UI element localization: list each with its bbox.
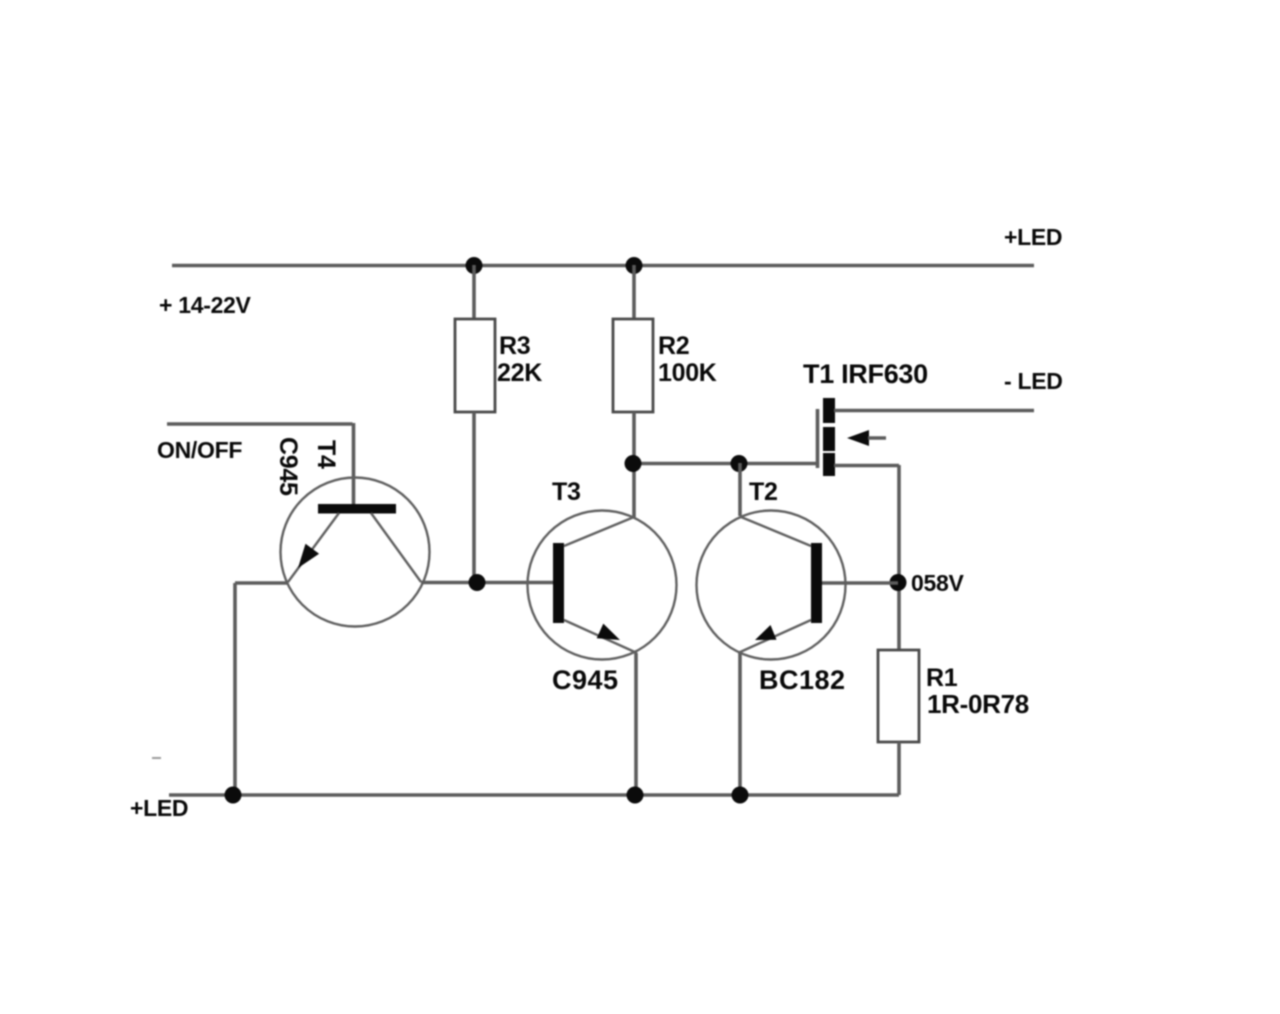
svg-text:T2: T2 — [749, 478, 778, 506]
wire gate node (R2 bottom to T1 gate) — [633, 462, 818, 466]
resistor R3 — [455, 265, 495, 582]
svg-text:+LED: +LED — [1004, 224, 1062, 250]
svg-text:BC182: BC182 — [759, 665, 846, 695]
stray mark — [152, 757, 161, 759]
svg-text:T4: T4 — [312, 440, 340, 469]
wire T1 source down to R1 — [897, 465, 901, 650]
svg-text:R3: R3 — [499, 332, 530, 360]
svg-text:R1: R1 — [926, 664, 958, 692]
transistor T4 C945 — [281, 478, 430, 627]
svg-text:058V: 058V — [911, 570, 964, 596]
transistor T3 C945 — [528, 511, 677, 660]
wire left vertical down — [233, 583, 237, 795]
resistor R1 — [878, 650, 919, 795]
node junction source/T2 base — [890, 574, 907, 591]
svg-text:- LED: - LED — [1004, 368, 1063, 394]
svg-text:+ 14-22V: + 14-22V — [159, 292, 252, 318]
node junction top rail / R2 — [626, 257, 643, 274]
svg-text:100K: 100K — [658, 359, 717, 387]
svg-text:1R-0R78: 1R-0R78 — [927, 689, 1029, 719]
transistor T2 BC182 — [697, 511, 846, 660]
svg-text:C945: C945 — [274, 437, 302, 496]
node junction T2 collector/gate wire — [731, 455, 748, 472]
svg-text:C945: C945 — [552, 665, 619, 695]
node junction bottom/T2 emitter — [732, 787, 749, 804]
wire T4 collector to T3 base — [421, 581, 553, 585]
wire T2 base to source node — [822, 581, 898, 585]
wire T2 emitter down — [738, 653, 742, 795]
svg-text:T1 IRF630: T1 IRF630 — [803, 359, 928, 389]
wire bottom rail — [169, 793, 899, 797]
node junction R3/collector wire — [469, 574, 486, 591]
svg-text:R2: R2 — [658, 332, 689, 360]
svg-text:+LED: +LED — [130, 795, 188, 821]
wire ON/OFF input — [167, 423, 354, 506]
wire top supply rail — [172, 264, 1034, 268]
svg-text:ON/OFF: ON/OFF — [157, 437, 242, 463]
node junction bottom/T3 emitter — [627, 787, 644, 804]
transistor T1 MOSFET IRF630 — [818, 398, 1035, 476]
svg-text:22K: 22K — [497, 359, 542, 387]
node junction R2/gate wire — [625, 455, 642, 472]
resistor R2 — [613, 265, 653, 518]
wire T3 emitter down — [634, 653, 638, 795]
node junction bottom/left wire — [225, 787, 242, 804]
wire T4 emitter to left rail — [235, 581, 288, 585]
svg-text:T3: T3 — [552, 478, 581, 506]
node junction top rail / R3 — [466, 257, 483, 274]
wire T2 collector to gate node — [738, 463, 742, 516]
